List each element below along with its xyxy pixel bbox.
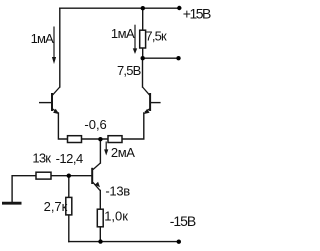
power terminal -15V [177, 240, 181, 244]
wire R2 to base junction [51, 175, 69, 177]
wire base junction to Q3 base [69, 175, 91, 177]
resistor R3 (left emitter) [68, 136, 82, 143]
svg-text:1мА: 1мА [31, 31, 55, 46]
label -15V [170, 213, 196, 229]
node output junction below R1 [141, 56, 145, 60]
label 2,7k [44, 199, 68, 214]
wire center node down to Q3 collector [99, 139, 101, 163]
svg-text:7,5В: 7,5В [117, 63, 141, 78]
label 7,5k [145, 29, 167, 44]
transistor Q2 [143, 87, 161, 114]
wire output node tap to terminal [143, 57, 179, 59]
node center emitter junction [98, 137, 102, 141]
label 1mA right [111, 26, 135, 41]
node R5 bottom junction [98, 239, 102, 243]
label 7,5V node voltage [117, 63, 141, 78]
wire R5 bottom to -15V rail [99, 227, 101, 242]
current arrow 1mA right [133, 25, 137, 54]
wire R3 to center node to R4 [82, 138, 109, 140]
wire bottom -15V rail [69, 241, 179, 243]
wire R1 bottom lead to output node [142, 48, 144, 58]
svg-text:1мА: 1мА [111, 26, 135, 41]
wire R1 top lead from rail junction [142, 8, 144, 30]
wire Q2 emitter down and left to R4 [122, 113, 144, 139]
node junction at rail/R1 [141, 6, 145, 10]
label 2mA [111, 145, 135, 160]
svg-text:7,5к: 7,5к [145, 29, 167, 44]
label 1mA left [31, 31, 55, 46]
terminal output tap [176, 56, 180, 60]
transistor Q3 [92, 163, 100, 190]
wire R6 bottom to -15V rail [68, 215, 70, 242]
svg-text:1,0к: 1,0к [104, 208, 128, 223]
svg-text:13к: 13к [32, 150, 51, 165]
wire base junction down to R6 [68, 176, 70, 198]
resistor R4 (right emitter) [108, 136, 122, 143]
label -12,4 node voltage [56, 151, 83, 166]
resistor R5 1.0k [97, 209, 103, 227]
label -0,6 node voltage [84, 117, 106, 132]
wire Q1 emitter down and right to R3 [58, 113, 67, 139]
current arrow 1mA left [52, 27, 56, 65]
wire ground stem up to 13k row [12, 176, 36, 203]
label +15V [183, 6, 211, 22]
svg-text:-0,6: -0,6 [84, 117, 106, 132]
node base junction [67, 174, 71, 178]
ground [2, 202, 22, 205]
label 13k [32, 150, 51, 165]
svg-text:2мА: 2мА [111, 145, 135, 160]
wire Q3 emitter down to R5 [99, 190, 101, 209]
svg-text:-12,4: -12,4 [56, 151, 83, 166]
resistor R2 13k [36, 172, 51, 179]
svg-text:2,7к: 2,7к [44, 199, 68, 214]
label -13v node voltage [105, 184, 130, 199]
svg-text:-15В: -15В [170, 213, 196, 229]
svg-text:+15В: +15В [183, 6, 211, 22]
power terminal +15V [177, 6, 181, 10]
svg-text:-13в: -13в [105, 184, 130, 199]
label 1,0k [104, 208, 128, 223]
current arrow 2mA [104, 142, 108, 156]
resistor R1 7.5k [140, 30, 146, 48]
wire output node down to Q2 collector [142, 58, 144, 87]
wire left collector branch (top corner down to Q1) [59, 8, 61, 87]
wire top +15V rail [60, 7, 180, 9]
transistor Q1 [39, 87, 60, 114]
resistor R6 2.7k [66, 197, 72, 215]
